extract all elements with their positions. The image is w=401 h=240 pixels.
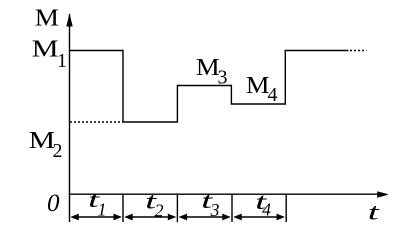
- tick t4 end: [285, 194, 287, 222]
- svg-text:M: M: [29, 128, 55, 154]
- svg-text:M: M: [32, 37, 59, 63]
- svg-text:1: 1: [57, 50, 67, 72]
- svg-text:2: 2: [53, 140, 63, 162]
- svg-text:3: 3: [218, 67, 228, 89]
- x-axis arrowhead: [377, 191, 388, 198]
- svg-text:2: 2: [155, 201, 164, 221]
- dimension arrow t4: [233, 214, 285, 221]
- svg-text:M: M: [246, 73, 270, 99]
- dimension arrow t3: [179, 214, 231, 221]
- dotted continuation top right: [350, 50, 367, 52]
- tick t1|t2: [122, 194, 124, 222]
- x-axis: [69, 193, 387, 195]
- svg-text:M: M: [196, 55, 220, 81]
- tick t3|t4: [231, 194, 233, 222]
- step curve M1-M2-M3-M4-M1: [70, 51, 349, 123]
- svg-text:M: M: [35, 6, 59, 32]
- svg-text:t: t: [368, 200, 380, 225]
- dimension arrow t2: [124, 214, 176, 221]
- svg-text:4: 4: [268, 84, 278, 106]
- svg-text:0: 0: [47, 190, 60, 217]
- svg-text:3: 3: [210, 200, 220, 220]
- tick t2|t3: [176, 194, 178, 222]
- y-axis: [69, 14, 71, 222]
- y-axis arrowhead: [66, 13, 72, 26]
- svg-text:1: 1: [98, 200, 107, 220]
- dotted M2 level line: [70, 121, 123, 123]
- dimension arrow t1: [70, 214, 122, 221]
- svg-text:4: 4: [262, 200, 271, 220]
